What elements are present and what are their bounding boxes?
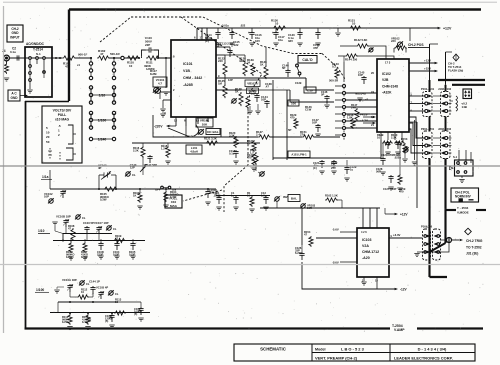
boxed label A101 LPM <box>288 151 310 158</box>
resistor R151 27 <box>302 135 315 139</box>
svg-text:BAL: BAL <box>291 196 297 200</box>
svg-text:V,MODE: V,MODE <box>457 210 469 214</box>
svg-text:+: + <box>248 31 250 35</box>
connector J202 dashed housing <box>441 131 451 159</box>
svg-text:10: 10 <box>377 136 380 140</box>
VOLTS/DIV switch box <box>42 106 82 163</box>
switch coupling dashed shaft horizontal <box>131 16 203 18</box>
resistor R139 24 <box>251 63 255 76</box>
resistor R125 1M <box>223 84 227 98</box>
svg-text:1/1a: 1/1a <box>42 175 49 179</box>
extra cap C146 <box>324 95 329 103</box>
IC102 right pin wires to connector P201 <box>409 117 425 138</box>
svg-text:1K: 1K <box>260 63 264 67</box>
resistor R132 <box>252 154 256 166</box>
resistor R110 10 <box>126 56 140 60</box>
node attenuator column A <box>90 57 92 59</box>
arrow head left of switch box <box>450 167 454 170</box>
band3 capacitor C144 1P <box>90 286 95 294</box>
resistor label box 100 <box>288 100 299 106</box>
switch box S right side <box>455 160 474 176</box>
trimmer near IC102 top <box>369 48 373 52</box>
wire +12V rail drop to position pot <box>409 28 411 41</box>
svg-text:0.2: 0.2 <box>332 65 336 69</box>
svg-text:AC/GND/DC: AC/GND/DC <box>26 42 45 46</box>
IC101 right pin stubs <box>216 46 230 48</box>
resistor R120 3.3K <box>235 136 237 143</box>
svg-text:500-1R: 500-1R <box>110 52 120 56</box>
board outline left step horizontal <box>25 101 69 103</box>
svg-text:240: 240 <box>218 59 223 63</box>
switch coupling dashed diagonal steep <box>181 17 262 108</box>
IC102 bottom pin stubs <box>380 132 382 140</box>
svg-text:D - 1 4 3 4 ( 3/4): D - 1 4 3 4 ( 3/4) <box>418 347 447 352</box>
wire to output jack <box>440 239 447 241</box>
wire cluster vertical x273 <box>272 80 274 160</box>
svg-text:1: 1 <box>58 129 60 133</box>
resistor R102 47 <box>97 56 110 60</box>
svg-text:C103 5P: C103 5P <box>83 221 94 225</box>
svg-text:CL: CL <box>132 173 136 177</box>
svg-text:900-1F: 900-1F <box>78 52 87 56</box>
svg-text:4P: 4P <box>98 166 102 170</box>
wire -220V diagonal to junction <box>168 128 190 137</box>
resistor R131 10 on rail <box>349 26 362 30</box>
svg-text:1/10: 1/10 <box>99 94 106 98</box>
svg-text:2.4: 2.4 <box>256 133 260 137</box>
thick bus bottom L to right <box>430 276 448 278</box>
svg-text:5P: 5P <box>282 66 286 70</box>
svg-text:14B: 14B <box>462 105 467 109</box>
board outline left upper vertical <box>68 10 70 102</box>
input jack J4 <box>4 55 10 61</box>
resistor R153 under IC102 <box>403 143 407 154</box>
ground pair below cluster <box>247 111 252 114</box>
resistor R104 101K <box>165 189 167 191</box>
svg-text:P201-J201: P201-J201 <box>421 127 435 131</box>
resistor R131 <box>252 140 256 152</box>
svg-text:CL: CL <box>115 292 119 296</box>
svg-text:VERT. PREAMP (CH-2): VERT. PREAMP (CH-2) <box>315 355 358 360</box>
svg-text:4.8uH: 4.8uH <box>190 149 198 153</box>
svg-text:-220V: -220V <box>154 125 163 129</box>
resistor R101 47 <box>62 56 76 60</box>
svg-text:+4.2V: +4.2V <box>360 119 368 123</box>
svg-text:T - 2504: T - 2504 <box>457 206 469 210</box>
wire through board edge <box>75 57 91 59</box>
capacitor C116 rail decoupling <box>251 28 253 31</box>
svg-text:(5): (5) <box>105 319 108 323</box>
wire IC101 pin to wafer lower <box>241 89 290 91</box>
band1 main wire <box>50 188 216 190</box>
resistor R124 43K <box>244 55 246 62</box>
vertical link lines attenuator group3 <box>90 113 92 128</box>
CAL'D label box <box>298 56 317 64</box>
arc wire crossing <box>194 125 199 136</box>
svg-text:10: 10 <box>129 64 133 68</box>
svg-text:27A: 27A <box>300 133 305 137</box>
capacitor C120 rail decoupling <box>299 28 301 31</box>
switch coupling dashed CAL'D to wafer <box>322 54 345 80</box>
svg-text:.47: .47 <box>265 85 269 89</box>
svg-text:10: 10 <box>81 290 84 294</box>
label box VR103A <box>245 80 260 87</box>
output jack circle J31 <box>447 238 452 243</box>
svg-text:47P: 47P <box>313 46 318 50</box>
connector J16 dashed housing <box>433 229 441 260</box>
svg-text:4.7: 4.7 <box>158 81 162 85</box>
CH-2 POL label box <box>451 188 479 202</box>
resistor R159 470 <box>399 143 401 174</box>
wire GND position to ground <box>29 81 31 89</box>
resistor R150 under IC102 <box>394 141 405 145</box>
svg-text:OFF: OFF <box>155 188 161 192</box>
svg-text:FLASH (3b): FLASH (3b) <box>448 68 463 72</box>
svg-text:47: 47 <box>65 65 69 69</box>
svg-text:R121 3.3K: R121 3.3K <box>204 137 217 141</box>
capacitor C129 left of wafer bottom <box>344 166 349 174</box>
band2 riser and top rail <box>63 234 112 241</box>
svg-text:+12V: +12V <box>443 27 452 31</box>
wire mid row horizontal <box>132 142 260 144</box>
resistor R107 below wire <box>83 242 87 253</box>
resistor R154 47 left of IC103 <box>316 237 357 239</box>
svg-text:-5.6V: -5.6V <box>332 261 339 265</box>
wire loop under IC101 <box>153 115 221 137</box>
CAL switch contacts <box>296 64 299 67</box>
resistor R128 <box>239 92 243 106</box>
ground IC101 left lower <box>160 109 165 112</box>
board outline bottom edge right segment <box>417 327 483 329</box>
svg-text:10P: 10P <box>312 121 317 125</box>
svg-text:VOLTS/ DIV: VOLTS/ DIV <box>53 109 72 113</box>
capacitor C121 <box>319 160 324 168</box>
wire IC101 pin to wafer upper <box>306 78 334 90</box>
wire output jack to ground tap <box>417 243 449 253</box>
svg-text:5P: 5P <box>288 128 292 132</box>
svg-text:CHM - 3442: CHM - 3442 <box>183 76 202 80</box>
switch coupling dashed vertical x248 <box>247 108 249 165</box>
svg-text:2: 2 <box>58 133 60 137</box>
wire wafer top to R144 <box>343 62 345 80</box>
trimmer at IC101 left <box>154 88 159 93</box>
wire lower horizontal y137 <box>153 136 258 138</box>
inductor label box L10 <box>304 87 316 93</box>
junction node after coupling box <box>55 57 57 59</box>
BAL label box <box>288 195 300 202</box>
capacitor C122 <box>331 160 336 168</box>
resistor R103 1K band1 <box>139 189 141 192</box>
attenuator contacts column A top <box>90 59 92 80</box>
band3 trimmer cap VC10A <box>67 284 72 292</box>
resistor R147 <box>355 108 359 121</box>
svg-text:0.01u: 0.01u <box>222 24 229 28</box>
svg-text:1M: 1M <box>218 82 223 86</box>
svg-text:R162 1.5K: R162 1.5K <box>325 194 338 198</box>
svg-text:10P: 10P <box>358 73 363 77</box>
resistor row - res c <box>250 196 254 207</box>
wire IC102 bottom to C121 cluster <box>273 140 381 158</box>
diamond test point CH-2 <box>453 54 459 61</box>
svg-text:-A285: -A285 <box>183 83 193 87</box>
svg-text:3.3K: 3.3K <box>229 134 235 138</box>
svg-text:10: 10 <box>115 300 118 304</box>
ground inside coupling box <box>27 90 32 93</box>
svg-text:CL: CL <box>113 227 117 231</box>
svg-text:12P: 12P <box>228 78 233 82</box>
polarity box with arrows <box>463 89 472 99</box>
wire IC103 output to connector <box>389 237 422 239</box>
title block vertical divider left <box>311 344 313 361</box>
board outline bottom edge left segment <box>25 327 391 329</box>
resistor R109 47 on wire <box>113 238 126 242</box>
svg-text:10P: 10P <box>44 195 49 199</box>
svg-text:50: 50 <box>46 140 50 144</box>
title block vertical divider right <box>389 344 391 361</box>
attenuator 1/1000 divider contacts <box>89 137 92 140</box>
svg-text:P16&J16: P16&J16 <box>421 225 433 229</box>
svg-text:IC102: IC102 <box>382 72 391 76</box>
svg-text:V.AMP: V.AMP <box>394 328 405 332</box>
contact after attenuator <box>121 56 124 59</box>
svg-text:220: 220 <box>391 39 396 43</box>
wire vertical feed right of IC102 <box>416 122 418 208</box>
wafer contact left stubs <box>335 85 342 87</box>
VOLTS/DIV switch bracket upper <box>68 125 73 144</box>
wafer to IC102 wires <box>346 92 377 94</box>
svg-text:0.1u: 0.1u <box>229 152 235 156</box>
capacitor row - cap d <box>263 196 268 204</box>
svg-text:24: 24 <box>371 90 374 94</box>
switch S-1 contacts on signal wire <box>29 57 32 60</box>
svg-text:22P: 22P <box>145 43 150 47</box>
svg-text:56P: 56P <box>376 170 381 174</box>
resistor R105 900K <box>103 187 118 191</box>
extra bracket tick volts-div box <box>59 152 61 160</box>
svg-text:470: 470 <box>290 116 295 120</box>
label box AC GND <box>8 90 20 101</box>
vertical link lines attenuator group2 <box>90 88 92 103</box>
svg-text:1.8K: 1.8K <box>347 116 353 120</box>
resistor R118 <box>167 143 169 146</box>
svg-text:C144 1P: C144 1P <box>89 280 100 284</box>
svg-text:6.20F: 6.20F <box>295 251 302 255</box>
svg-text:A101 LPM-1: A101 LPM-1 <box>291 153 307 157</box>
connector P201 dashed housing <box>423 131 433 159</box>
svg-text:TO T-2502: TO T-2502 <box>466 245 482 249</box>
svg-text:C1W: C1W <box>305 108 312 112</box>
trimmer VR101 DC BAL <box>196 118 213 127</box>
svg-text:5P: 5P <box>321 93 324 97</box>
coupling switch box T-2514 <box>25 47 52 97</box>
svg-text:NO234B: NO234B <box>355 92 366 96</box>
capacitor C115 rail decoupling <box>231 28 233 31</box>
ground under trimmer VC101 <box>165 76 167 88</box>
svg-text:CHM-3148: CHM-3148 <box>382 84 398 88</box>
svg-text:CL: CL <box>82 216 86 220</box>
arrow to CH-2 TRIG label <box>452 239 459 241</box>
capacitor C113 <box>229 47 231 49</box>
band2 main wire <box>53 240 145 242</box>
svg-text:47: 47 <box>247 142 250 146</box>
resistor R145 <box>246 96 250 109</box>
svg-text:INV: INV <box>283 195 288 199</box>
svg-text:25V: 25V <box>331 166 336 170</box>
wire horizontal stub at feed top <box>430 43 439 45</box>
thick bus vertical right x445 <box>444 159 446 244</box>
capacitor C147 10P <box>315 124 320 132</box>
svg-text:x2: x2 <box>365 98 369 102</box>
svg-text:10P: 10P <box>251 92 256 96</box>
capacitor C144 10P <box>264 100 269 108</box>
svg-text:10u: 10u <box>278 38 283 42</box>
board outline left lower vertical <box>25 101 27 329</box>
thick bus vertical right x429 <box>428 159 430 278</box>
svg-text:14A: 14A <box>351 106 356 110</box>
ground at input jack <box>4 78 9 81</box>
band3 trimmer cap VC105 <box>98 291 103 299</box>
board edge thick segment y210 right <box>476 209 486 211</box>
trimmer under IC102 <box>404 148 408 152</box>
svg-text:2.2K: 2.2K <box>133 149 139 153</box>
capacitor stack left of IC102 <box>361 76 366 84</box>
svg-text:VC10B 18P: VC10B 18P <box>56 215 71 219</box>
wires from IC102 into group1 <box>409 95 425 97</box>
wire top +12V rail <box>197 27 438 29</box>
capacitor C125 180P <box>388 175 393 183</box>
capacitor C109 1000P <box>138 307 143 315</box>
band2 trimmer cap VC104 18P <box>63 219 68 227</box>
svg-text:R144 100: R144 100 <box>345 58 358 62</box>
svg-text:P101-J101: P101-J101 <box>421 87 435 91</box>
wire drops into IC103 top <box>362 208 364 228</box>
svg-text:47: 47 <box>68 227 71 231</box>
wire cluster vertical x287 <box>286 90 288 160</box>
svg-text:R142 5.6K: R142 5.6K <box>354 38 367 42</box>
svg-text:1/2W: 1/2W <box>100 198 107 202</box>
svg-text:10K: 10K <box>202 123 208 127</box>
svg-text:IC101: IC101 <box>183 62 193 66</box>
wire under IC102 to ground <box>404 153 406 158</box>
svg-text:IC103: IC103 <box>362 238 371 242</box>
capacitor C2 <box>14 55 22 60</box>
resistor R130 10 on rail <box>272 26 287 30</box>
junction dots main wire <box>90 57 92 59</box>
svg-text:VC10? 10P: VC10? 10P <box>94 221 109 225</box>
wire INV BAL row down to C126 <box>301 208 303 245</box>
svg-text:VC105 4P: VC105 4P <box>96 286 108 290</box>
extra ground under C146 <box>326 101 328 104</box>
PULL x10 MAG label box <box>165 195 182 208</box>
connector P16 dashed housing <box>423 229 431 260</box>
trimmer cap VC103 4P bridge <box>98 175 100 189</box>
node attenuator column B <box>113 57 115 59</box>
switch coupling dashed shaft from volts/div <box>100 17 131 42</box>
svg-text:1.2K: 1.2K <box>161 147 167 151</box>
resistor R116 2.2K <box>142 143 144 146</box>
svg-text:-A32K: -A32K <box>382 91 392 95</box>
resistor R121 3.3K <box>205 141 219 145</box>
resistor R122 240 <box>224 55 226 62</box>
capacitor row - cap b <box>233 196 238 204</box>
resistor R111 390K on wire <box>146 56 160 60</box>
resistor R142 5.6K <box>356 44 369 48</box>
wire switch to ground <box>461 176 463 178</box>
svg-text:-12V: -12V <box>400 288 408 292</box>
svg-text:CH-2 POS: CH-2 POS <box>408 43 424 47</box>
svg-text:10P: 10P <box>261 98 266 102</box>
attenuator 1/10 divider contacts <box>90 85 92 105</box>
svg-text:CAL'D: CAL'D <box>302 58 313 62</box>
capacitor D105 100P below wire <box>130 242 135 250</box>
svg-text:S-1: S-1 <box>453 155 458 159</box>
svg-text:GND: GND <box>10 96 18 100</box>
svg-text:INPUT: INPUT <box>10 35 20 39</box>
svg-text:V1B: V1B <box>183 69 190 73</box>
diamond test point trig <box>465 228 472 235</box>
trimmer INV BAL <box>275 197 279 201</box>
svg-text:12: 12 <box>174 118 177 122</box>
resistor R108 47 bridge <box>71 228 75 241</box>
svg-text:NORM INV: NORM INV <box>455 195 472 199</box>
extra wire stub top of wafer <box>343 56 345 62</box>
band1 junction dots <box>98 188 100 190</box>
IC101 bottom pin stubs <box>175 117 177 126</box>
resistor R162 1.5K <box>325 198 338 202</box>
attenuator 1/100 divider contacts <box>90 111 92 130</box>
svg-text:24: 24 <box>247 61 251 65</box>
connector group1 contact pairs <box>425 95 428 98</box>
resistor R128b lower <box>254 152 258 165</box>
svg-text:VR103A: VR103A <box>247 82 258 86</box>
switch coupling dashed jog to x224 <box>224 165 248 212</box>
svg-text:L10: L10 <box>307 88 313 92</box>
band3 main wire <box>50 312 150 314</box>
capacitor C140 5P <box>299 75 301 77</box>
connector P16 contact pairs <box>424 235 427 238</box>
trimmer mid cluster <box>232 99 236 103</box>
svg-text:4 2 6: 4 2 6 <box>361 230 367 234</box>
svg-text:CH-2 TRIG: CH-2 TRIG <box>466 239 483 243</box>
wire INV BAL to IC103 <box>260 207 380 209</box>
ground x2 label <box>357 98 362 101</box>
svg-text:LEADER ELECTRONICS CORP.: LEADER ELECTRONICS CORP. <box>394 355 453 360</box>
svg-text:47: 47 <box>100 52 104 56</box>
resistor element below VR102 <box>394 46 407 50</box>
wire DC position <box>43 59 45 70</box>
svg-text:DC BAL: DC BAL <box>207 130 219 134</box>
capacitor C118 0.1 <box>233 150 238 158</box>
label box L101 <box>186 145 202 154</box>
capacitor C126 33P <box>299 252 304 260</box>
svg-text:J202-P202: J202-P202 <box>438 127 452 131</box>
VOLTS/DIV switch bracket lower <box>66 148 73 160</box>
band3 ground left <box>54 290 59 293</box>
page scan edge artifacts <box>3 6 5 333</box>
svg-text:+: + <box>272 31 274 35</box>
VOLTS/DIV dashed shaft <box>49 148 51 160</box>
capacitor C128 56P <box>382 143 384 157</box>
svg-text:.022: .022 <box>240 24 246 28</box>
board outline top edge <box>69 8 481 11</box>
op-amp IC101 outline <box>171 40 216 117</box>
band2 trimmer cap VC105 <box>96 226 101 234</box>
label -220V with arrow <box>167 125 176 127</box>
resistor R126 1K <box>264 65 268 79</box>
svg-text:10: 10 <box>352 22 356 26</box>
svg-text:1/4W: 1/4W <box>170 195 177 199</box>
thick bus diagonal step <box>430 243 446 252</box>
